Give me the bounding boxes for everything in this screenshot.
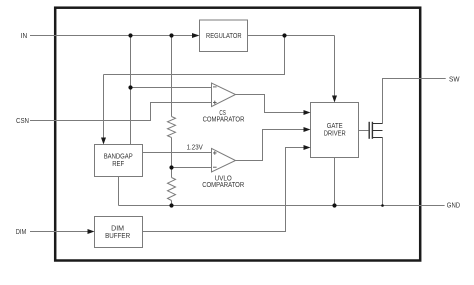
- arrow into regulator: [192, 33, 200, 38]
- svg-text:1.23V: 1.23V: [187, 144, 203, 151]
- label DIM BUFFER line 2: [105, 233, 130, 240]
- junction dot divider midpoint: [169, 165, 173, 169]
- IC boundary box: [55, 8, 420, 261]
- block BANDGAP REF: [95, 145, 143, 177]
- wire CS comparator minus input: [131, 87, 212, 89]
- CS comparator minus sign: [213, 86, 217, 88]
- label CS COMPARATOR line 2: [203, 116, 245, 123]
- label BANDGAP REF line 1: [104, 154, 133, 161]
- op-amp UVLO comparator: [212, 148, 236, 172]
- junction dot gate driver ground: [332, 203, 336, 207]
- wire bandgap 1.23V reference to UVLO plus: [143, 152, 212, 154]
- pin label CSN: [16, 118, 29, 125]
- wire regulator to gate driver top: [334, 36, 336, 98]
- junction dot divider bottom on ground: [169, 203, 173, 207]
- wire MOSFET source to ground: [382, 138, 384, 206]
- wire bandgap ref bottom to ground: [118, 177, 120, 206]
- svg-text:BANDGAP: BANDGAP: [104, 154, 133, 161]
- arrow into DIM buffer: [88, 229, 95, 234]
- CS comparator plus sign: [213, 101, 217, 105]
- arrow into bandgap ref top: [101, 138, 106, 145]
- junction dot CS minus tap: [128, 85, 132, 89]
- junction dot IN/divider branch: [169, 33, 173, 37]
- wire ground rail: [119, 205, 445, 207]
- wire R2 bottom to ground rail: [171, 201, 173, 206]
- resistor R2 (lower divider): [168, 178, 176, 201]
- wire into bandgap ref top: [103, 75, 105, 139]
- svg-text:BUFFER: BUFFER: [105, 233, 130, 240]
- transistor Q1 channel bar: [371, 122, 373, 139]
- svg-text:CSN: CSN: [16, 118, 29, 125]
- label GATE DRIVER line 2: [324, 130, 346, 137]
- wire IN to divider resistor R1 (vertical x=171.5): [171, 36, 173, 117]
- pin label SW: [449, 76, 460, 83]
- UVLO comparator plus sign: [213, 151, 217, 155]
- transistor Q1 source stub: [372, 137, 382, 139]
- wire regulator node down and across (to bandgap feed): [104, 36, 285, 75]
- wire regulator output line: [248, 35, 335, 37]
- value label 1.23V: [187, 144, 203, 151]
- block DIM BUFFER: [95, 217, 143, 248]
- wire gate driver bottom to ground: [334, 158, 336, 206]
- svg-text:DIM: DIM: [111, 226, 124, 233]
- label UVLO COMPARATOR line 2: [202, 182, 244, 189]
- label GATE DRIVER line 1: [327, 123, 343, 130]
- label CS COMPARATOR line 1: [219, 110, 226, 117]
- wire R1 bottom to node: [171, 138, 173, 168]
- svg-text:COMPARATOR: COMPARATOR: [202, 182, 244, 189]
- svg-text:IN: IN: [21, 33, 28, 40]
- UVLO comparator minus sign: [213, 166, 217, 168]
- arrow UVLO output into gate driver: [304, 127, 311, 132]
- block GATE DRIVER: [311, 103, 359, 158]
- label BANDGAP REF line 2: [112, 161, 124, 168]
- junction dot regulator output branch: [282, 33, 286, 37]
- arrow into gate driver top: [332, 96, 337, 103]
- wire DIM input line: [30, 231, 88, 233]
- svg-text:REGULATOR: REGULATOR: [206, 33, 242, 40]
- wire gate driver output to MOSFET gate: [359, 130, 369, 132]
- wire node to R2 top: [171, 168, 173, 178]
- svg-text:GND: GND: [447, 203, 460, 210]
- wire UVLO comparator output to gate driver: [236, 130, 306, 161]
- svg-text:GATE: GATE: [327, 123, 343, 130]
- transistor Q1 body stub: [372, 130, 382, 132]
- wire CS comparator output to gate driver: [236, 95, 306, 113]
- block REGULATOR: [200, 20, 248, 52]
- label DIM BUFFER line 1: [111, 226, 124, 233]
- svg-text:COMPARATOR: COMPARATOR: [203, 116, 245, 123]
- pin label GND: [447, 203, 460, 210]
- transistor Q1 drain stub: [372, 123, 382, 125]
- wire DIM buffer output to gate driver: [143, 148, 306, 232]
- resistor R1 (upper divider): [168, 117, 176, 138]
- svg-text:SW: SW: [449, 76, 460, 83]
- wire divider node to UVLO minus: [172, 167, 212, 169]
- op-amp CS comparator: [212, 83, 236, 107]
- label REGULATOR: [206, 33, 242, 40]
- wire IN input line: [30, 35, 193, 37]
- svg-text:DRIVER: DRIVER: [324, 130, 346, 137]
- arrow DIM path into gate driver: [304, 145, 311, 150]
- svg-text:DIM: DIM: [16, 229, 27, 236]
- label UVLO COMPARATOR line 1: [215, 176, 232, 183]
- wire IN to CS- and bandgap (vertical x=130.5): [130, 36, 132, 145]
- pin label DIM: [16, 229, 27, 236]
- transistor Q1 gate bar: [368, 122, 370, 139]
- arrow CS output into gate driver: [304, 110, 311, 115]
- svg-text:REF: REF: [112, 161, 124, 168]
- wire CSN input to CS comparator plus: [30, 103, 212, 121]
- junction dot IN/CS branch: [128, 33, 132, 37]
- wire MOSFET drain to SW: [383, 79, 446, 124]
- pin label IN: [21, 33, 28, 40]
- junction dot MOSFET source on ground: [381, 204, 384, 207]
